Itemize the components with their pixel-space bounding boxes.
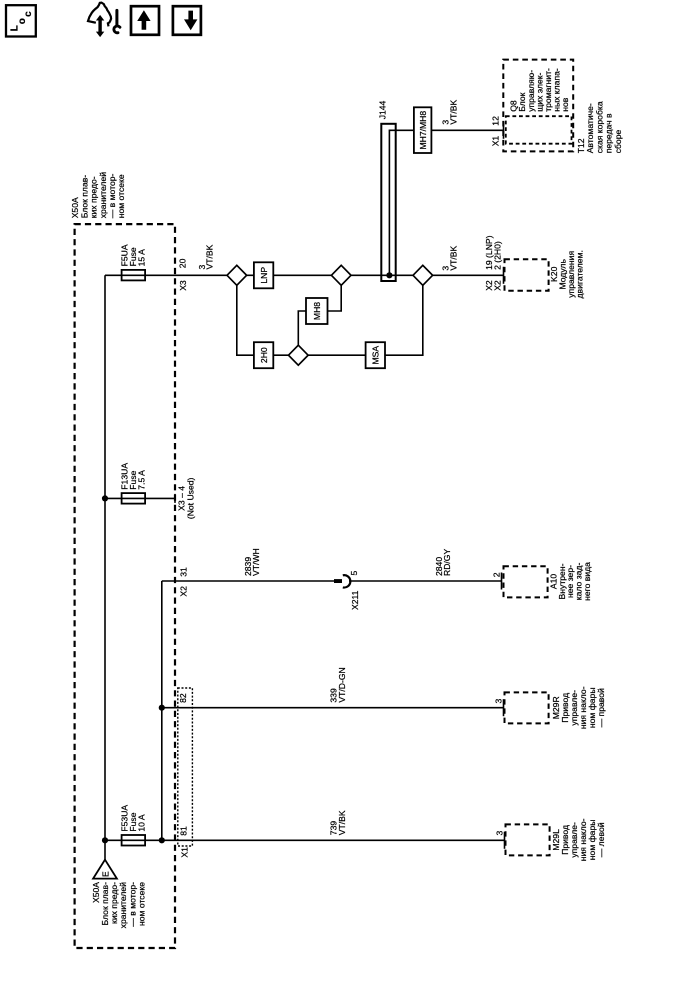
pin 3 (M29L) (495, 831, 505, 836)
svg-text:VT/D-GN: VT/D-GN (337, 667, 347, 702)
wire lower rail (237, 275, 423, 355)
wire label 3 VT/BK (to Q8) (441, 99, 459, 124)
svg-text:MH7/MH8: MH7/MH8 (418, 111, 428, 150)
wire feed row X2-31 (162, 580, 334, 582)
gate MSA (366, 342, 385, 368)
ground terminal E triangle (93, 860, 117, 879)
label M29R headlamp leveling actuator right (551, 686, 606, 729)
fuse F53UA (122, 835, 146, 846)
wire label 3 VT/BK (left) (197, 244, 215, 269)
label K20 engine control module (549, 250, 585, 298)
wire fuse F5UA feed (105, 274, 227, 276)
label connector X1 (bottom) (180, 847, 190, 858)
gate MH8 (306, 298, 328, 324)
component M29R dashed box (505, 692, 549, 723)
junction dot fuse F13UA tap (102, 495, 108, 501)
svg-text:X1: X1 (180, 847, 190, 858)
svg-text:82: 82 (178, 693, 188, 703)
label X50A fuse block (bottom) (91, 882, 146, 929)
svg-text:2: 2 (491, 572, 501, 577)
icon vehicle leveling (car outline with arrows and wrench) (88, 3, 120, 37)
label A10 inside rear view mirror (548, 562, 592, 601)
pin 3 (M29R) (493, 699, 503, 704)
svg-text:12: 12 (491, 116, 501, 126)
svg-text:15 A: 15 A (137, 249, 147, 266)
wire battery feed bus (left vertical) (104, 275, 106, 859)
svg-text:X2: X2 (493, 280, 503, 291)
svg-text:J144: J144 (378, 100, 388, 119)
wire label 3 VT/BK (to K20) (441, 245, 459, 270)
node diamond 1 (227, 265, 247, 285)
junction dot bus1 row4 (102, 837, 108, 843)
svg-text:MSA: MSA (371, 346, 381, 365)
wire fuse F53UA row to M29L (105, 839, 505, 841)
pins X2 19 (LNP) / X2 2 (2H0) (484, 235, 503, 290)
svg-text:X2: X2 (178, 586, 188, 597)
svg-text:VT/BK: VT/BK (449, 245, 459, 270)
node diamond 3 (413, 265, 433, 285)
svg-text:VT/WH: VT/WH (251, 548, 261, 576)
terminal tick X3-4 (174, 494, 176, 503)
svg-text:2 (2H0): 2 (2H0) (493, 241, 503, 270)
gate MH7/MH8 (414, 107, 432, 153)
wire to M29R (162, 707, 504, 709)
wire fuse F13UA branch (105, 497, 175, 499)
icon LOC box (6, 5, 36, 36)
label X211 and pin 5 (349, 571, 360, 611)
junction dot bus2 row4 (159, 837, 165, 843)
label F13UA Fuse 7.5 A (120, 463, 147, 490)
svg-text:LNP: LNP (259, 267, 269, 284)
label M29L headlamp leveling actuator left (551, 818, 606, 861)
node diamond 4 (289, 345, 309, 365)
svg-text:3: 3 (493, 699, 503, 704)
svg-text:20: 20 (177, 258, 187, 268)
svg-text:— правой: — правой (596, 688, 606, 727)
icon down arrow button (173, 6, 201, 35)
pin 82 (178, 693, 188, 703)
svg-text:o: o (17, 18, 28, 24)
component M29L dashed box (506, 824, 550, 855)
label F5UA Fuse 15 A (120, 244, 147, 266)
svg-text:— левой: — левой (596, 822, 606, 857)
svg-text:31: 31 (178, 567, 188, 577)
svg-text:нов: нов (560, 97, 570, 112)
svg-text:двигателем.: двигателем. (575, 250, 585, 298)
label F53UA Fuse 10 A (120, 805, 147, 832)
icon up arrow button (131, 6, 159, 35)
pin 31 connector X2 (178, 567, 188, 597)
label Q8 solenoid valve block (509, 68, 571, 112)
svg-text:сборе: сборе (613, 130, 623, 154)
svg-text:X3: X3 (178, 280, 188, 291)
svg-text:2H0: 2H0 (259, 347, 269, 363)
svg-text:ном отсеке: ном отсеке (116, 174, 126, 218)
svg-text:ном отсеке: ном отсеке (136, 882, 146, 926)
fuse block X50A dashed box (75, 224, 175, 948)
wire label 2840 RD/GY (434, 549, 452, 576)
terminal tick Q8 (503, 122, 505, 139)
svg-text:L: L (10, 25, 21, 31)
component Q8 dashed box (503, 60, 573, 152)
svg-text:X1: X1 (491, 136, 501, 147)
svg-text:него вида: него вида (582, 562, 592, 601)
svg-text:VT/BK: VT/BK (449, 99, 459, 124)
label T12 automatic transmission (576, 101, 623, 153)
terminal tick A10 (501, 573, 503, 590)
svg-text:3: 3 (495, 831, 505, 836)
splice pack J144 (381, 124, 503, 281)
terminal tick K20 (503, 267, 505, 284)
svg-text:81: 81 (178, 826, 188, 836)
svg-text:(Not Used): (Not Used) (185, 477, 195, 519)
terminal tick M29R (503, 699, 505, 716)
svg-text:X211: X211 (350, 590, 360, 610)
junction dot row M29R (159, 705, 165, 711)
bus wire vertical (inside box) (161, 581, 163, 840)
pin 20 connector X3 (177, 258, 188, 290)
pin 81 (178, 826, 188, 836)
fuse F13UA (122, 493, 146, 504)
connector X1 sub-box of Q8 (506, 116, 572, 144)
wire label 739 VT/BK (329, 810, 347, 835)
wire label 339 VT/D-GN (329, 667, 347, 702)
wire label 2839 VT/WH (243, 548, 261, 576)
svg-text:RD/GY: RD/GY (442, 549, 452, 576)
svg-text:5: 5 (349, 571, 359, 576)
gate LNP (254, 262, 273, 288)
svg-text:c: c (23, 11, 34, 17)
gate 2H0 (254, 342, 273, 368)
pin X3 - 4 (Not Used) (177, 477, 196, 519)
connector X1 dotted detail box (178, 688, 193, 846)
svg-text:7.5 A: 7.5 A (137, 470, 147, 490)
svg-text:E: E (100, 871, 110, 877)
wire to A10 (349, 580, 502, 582)
svg-text:VT/BK: VT/BK (337, 810, 347, 835)
component A10 dashed box (504, 566, 548, 597)
inline connector X211 pin 5 (334, 575, 350, 587)
label J144 (378, 100, 388, 119)
svg-text:MH8: MH8 (312, 302, 322, 320)
label X50A fuse block (top) (70, 172, 126, 219)
node diamond 2 (331, 265, 351, 285)
pin 2 (A10) (491, 572, 501, 577)
wire MH8 branch (298, 275, 341, 345)
svg-text:10 A: 10 A (137, 814, 147, 831)
fuse F5UA (122, 270, 146, 281)
terminal tick M29L (504, 832, 506, 849)
wire main row to K20 (227, 274, 504, 276)
pin 12 connector X1 (Q8) (491, 116, 501, 146)
svg-text:VT/BK: VT/BK (205, 244, 215, 269)
component K20 dashed box (505, 259, 549, 290)
